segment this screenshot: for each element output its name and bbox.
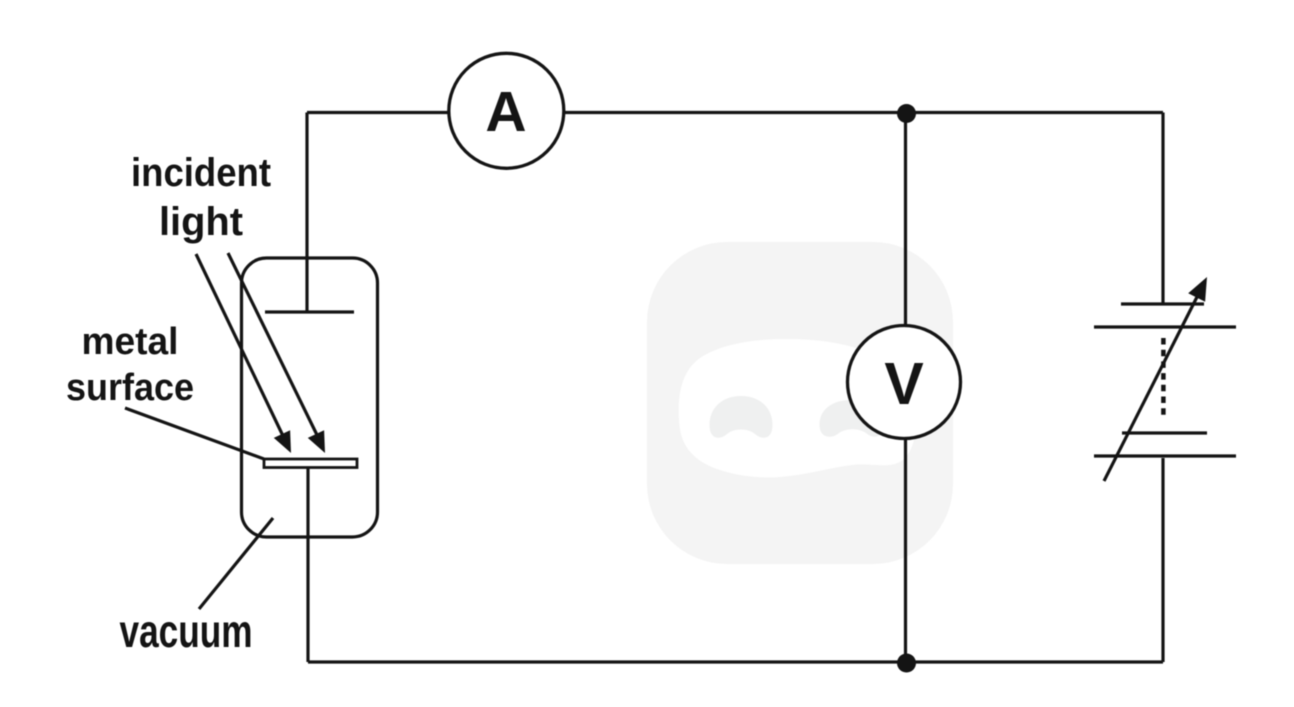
svg-text:metal: metal xyxy=(82,321,179,363)
svg-text:V: V xyxy=(884,351,923,417)
svg-text:surface: surface xyxy=(66,367,194,409)
svg-text:incident: incident xyxy=(131,151,271,195)
svg-text:A: A xyxy=(485,80,526,144)
svg-text:vacuum: vacuum xyxy=(120,605,253,657)
svg-text:light: light xyxy=(159,200,243,244)
